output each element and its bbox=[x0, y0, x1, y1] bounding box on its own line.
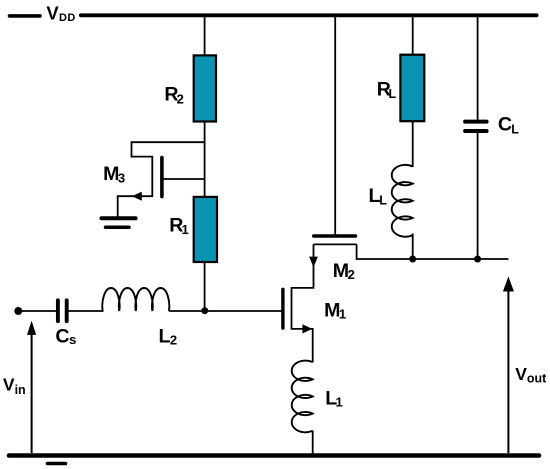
transistor M1 gate bar bbox=[281, 289, 284, 328]
ground (M3 source) bar 1 bbox=[102, 216, 136, 220]
wire: LL to output node bbox=[412, 234, 414, 260]
wire: rail to M2 gate bbox=[334, 16, 336, 235]
wire: L1 to ground rail bbox=[312, 431, 314, 455]
wire: rail to RL bbox=[412, 16, 414, 59]
node B: M2 drain / LL junction bbox=[409, 256, 416, 263]
input node dot bbox=[14, 307, 22, 315]
transistor M2 gate bar bbox=[314, 234, 356, 238]
annotation arrow Vout bbox=[507, 290, 509, 453]
ground rail bbox=[9, 453, 539, 458]
transistor M3 gate lead bbox=[162, 178, 205, 180]
resistor RL bbox=[400, 55, 424, 122]
wire: CL to output node bbox=[477, 133, 479, 259]
wire: rail to CL bbox=[477, 16, 479, 122]
resistor R2 bbox=[194, 55, 216, 121]
capacitor CL plate 2 bbox=[465, 129, 487, 133]
capacitor Cs plate 1 bbox=[56, 300, 60, 321]
transistor M3: drain lead, channel, source lead bbox=[118, 142, 205, 216]
node A: R1 / L2 / M1 gate junction bbox=[201, 307, 208, 314]
ground (M3 source) bar 2 bbox=[106, 225, 130, 229]
inductor L2 bbox=[102, 288, 169, 311]
transistor M3 source arrow bbox=[132, 192, 142, 201]
VDD rail left stub bbox=[10, 14, 41, 18]
inductor L1 bbox=[292, 361, 313, 433]
node C: CL / output junction bbox=[474, 256, 481, 263]
wire: RL to LL bbox=[412, 121, 414, 167]
resistor R1 bbox=[194, 197, 217, 262]
annotation arrow Vin bbox=[31, 334, 33, 453]
transistor M2 drain lead to output line bbox=[357, 244, 509, 259]
wire: L2 through node A to M1 gate bbox=[169, 310, 282, 312]
ground rail stub bbox=[48, 462, 66, 466]
wire: Cs to L2 bbox=[68, 310, 103, 312]
power rail VDD bbox=[81, 13, 537, 17]
capacitor Cs plate 2 bbox=[65, 300, 69, 321]
transistor M2 channel bbox=[314, 243, 357, 245]
transistor M1 source arrow (right) bbox=[302, 324, 312, 333]
wire: rail to R2/R1 branch down to node A bbox=[204, 16, 206, 311]
transistor M3 gate bar bbox=[160, 158, 164, 197]
wire: input to Cs bbox=[18, 310, 56, 312]
inductor LL bbox=[392, 165, 413, 237]
transistor M2 source arrow (down) bbox=[309, 257, 318, 268]
transistor M1 channel with M2 source path and source lead to L1 bbox=[292, 244, 314, 362]
capacitor CL plate 1 bbox=[465, 120, 487, 124]
